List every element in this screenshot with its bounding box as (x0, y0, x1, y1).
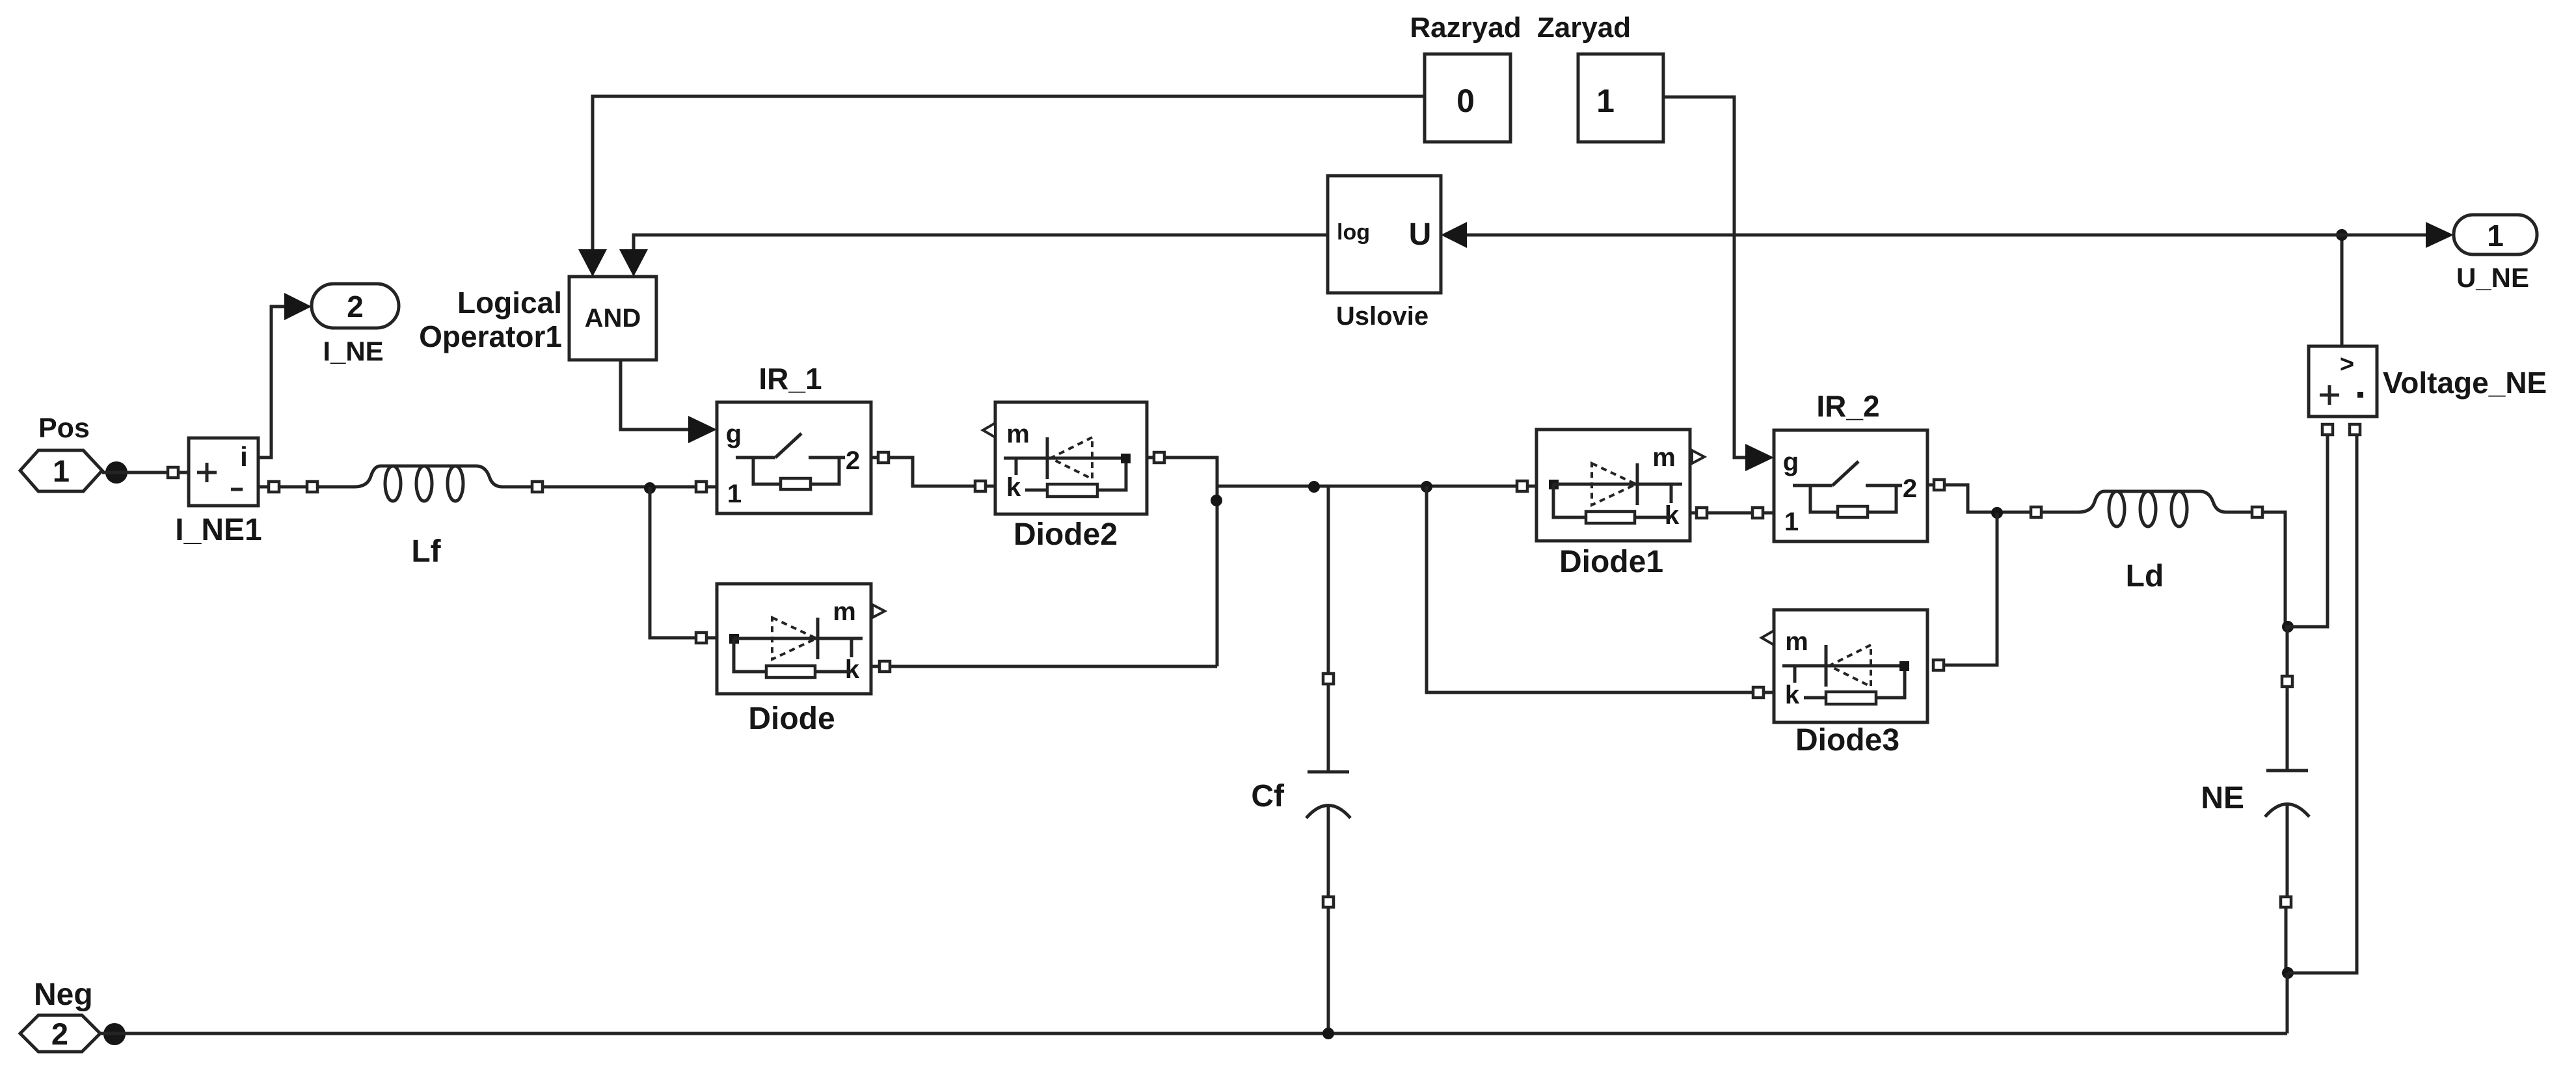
terminal square Diode2 input (975, 481, 986, 491)
diode Diode1 (1536, 430, 1690, 541)
inductor Ld (2041, 491, 2252, 512)
junction dot Cf ground (1322, 1028, 1334, 1039)
terminal square IR_1 input 1 (696, 482, 706, 492)
m arrow Diode2 (983, 423, 995, 437)
diode Diode2 (mirrored) (995, 402, 1147, 514)
svg-text:m: m (1785, 627, 1808, 656)
wire Voltage_NE output up (2341, 235, 2344, 346)
terminal square Diode3 input (1753, 687, 1764, 698)
terminal square Cf top (1323, 674, 1334, 684)
wire bus down to Cf (1327, 486, 1330, 674)
svg-text:I_NE1: I_NE1 (175, 513, 262, 547)
svg-text:m: m (833, 597, 856, 626)
junction dot NE bottom (2282, 967, 2294, 979)
terminal square Diode output (879, 661, 890, 672)
inductor Lf (317, 466, 532, 487)
wire I_NE1 output to Lf (258, 485, 317, 489)
svg-text:Diode1: Diode1 (1559, 545, 1663, 579)
wire Voltage_NE output to U_NE (2342, 234, 2426, 237)
wire Uslovie to AND input 2 (634, 235, 1328, 251)
svg-text:Pos: Pos (38, 413, 90, 444)
terminal square Diode2 output (1154, 452, 1164, 463)
diode Diode (717, 584, 871, 694)
junction dot NE node (2282, 621, 2294, 633)
svg-text:Ld: Ld (2126, 559, 2164, 594)
wire Diode2 output down to bus (1147, 458, 1217, 666)
junction dot IR_2 output node (1991, 507, 2003, 519)
m arrow Diode (872, 605, 885, 618)
terminal square Voltage_NE minus (2350, 424, 2360, 435)
junction dot after Pos (105, 461, 127, 484)
svg-text:IR_2: IR_2 (1816, 389, 1879, 423)
svg-text:Logical: Logical (457, 286, 562, 320)
svg-text:k: k (845, 655, 860, 684)
junction dot Voltage_NE output (2336, 229, 2348, 241)
wire node down to Diode3 output (1944, 513, 1997, 665)
wire Ld to NE node (2262, 512, 2285, 627)
svg-text:Lf: Lf (411, 534, 441, 569)
junction dot after Neg (103, 1023, 126, 1045)
terminal square NE top (2282, 676, 2292, 687)
terminal square Diode input (696, 633, 706, 643)
wire ground bus (100, 1032, 2287, 1035)
svg-text:1: 1 (727, 480, 742, 508)
terminal square NE bottom (2281, 897, 2291, 907)
wire Zaryad to IR_2 g (1663, 97, 1747, 458)
inport Neg (20, 1015, 100, 1052)
terminal square I_NE1 input (168, 467, 178, 478)
svg-text:IR_1: IR_1 (758, 362, 822, 396)
svg-text:2: 2 (347, 290, 364, 323)
svg-text:2: 2 (51, 1017, 68, 1051)
arrowhead into U_NE (2426, 222, 2454, 248)
wire Lf to IR_1 input 1 (543, 485, 717, 489)
terminal square IR_2 output 2 (1934, 480, 1944, 490)
svg-text:k: k (1785, 681, 1800, 709)
wire Pos to I_NE1 (102, 471, 189, 474)
svg-text:Razryad: Razryad (1410, 12, 1521, 44)
svg-text:log: log (1337, 220, 1370, 245)
svg-text:Voltage_NE: Voltage_NE (2383, 366, 2547, 400)
arrowhead AND input 1 (578, 249, 607, 277)
svg-text:AND: AND (585, 304, 641, 333)
terminal square IR_1 output 2 (878, 452, 889, 463)
wire NE node to Voltage_NE plus (2285, 435, 2328, 627)
svg-text:0: 0 (1456, 83, 1475, 119)
svg-text:Diode3: Diode3 (1795, 723, 1899, 758)
switch IR_2 (1774, 430, 1927, 541)
svg-text:i: i (240, 441, 248, 472)
wire Cf bottom to bus (1327, 907, 1330, 1033)
svg-text:Diode: Diode (748, 702, 835, 736)
junction node A (644, 482, 656, 494)
terminal square Diode1 output (1697, 508, 1707, 518)
terminal square Cf bottom (1323, 897, 1334, 907)
logical operator AND (569, 277, 656, 360)
arrowhead IR_1 g (688, 416, 717, 443)
capacitor NE (2286, 687, 2289, 771)
svg-text:Diode2: Diode2 (1013, 517, 1118, 552)
capacitor Cf (1327, 684, 1330, 772)
svg-text:NE: NE (2201, 781, 2244, 815)
svg-text:Operator1: Operator1 (419, 320, 562, 353)
svg-text:g: g (1783, 448, 1799, 476)
terminal square Ld right (2252, 507, 2262, 517)
wire NE bottom junction to Voltage_NE minus (2288, 435, 2357, 973)
logic block Uslovie (1328, 176, 1441, 293)
constant Razryad (1425, 54, 1510, 142)
wire node A down to Diode input (650, 487, 717, 638)
svg-text:m: m (1006, 420, 1030, 448)
terminal square Lf left (307, 482, 317, 492)
outport U_NE (2454, 215, 2537, 254)
svg-text:U_NE: U_NE (2456, 262, 2529, 293)
terminal square Diode1 input (1517, 481, 1527, 491)
svg-text:1: 1 (53, 454, 70, 488)
arrowhead IR_2 g (1745, 444, 1774, 471)
wire branch to Diode3 input (1427, 486, 1774, 692)
svg-text:U: U (1409, 217, 1432, 252)
arrowhead into Uslovie (1441, 222, 1467, 248)
m arrow Diode1 (1692, 450, 1704, 463)
wire I_NE1 i output up to I_NE (258, 307, 284, 458)
svg-text:Cf: Cf (1251, 779, 1285, 813)
svg-text:1: 1 (1596, 83, 1615, 119)
wire main bus to Diode1 (1217, 485, 1536, 488)
terminal square Voltage_NE plus (2322, 424, 2333, 435)
svg-text:g: g (726, 420, 742, 448)
svg-text:2: 2 (1903, 474, 1917, 503)
diode Diode3 (mirrored) (1774, 610, 1927, 722)
wire Razryad to AND input 1 (593, 96, 1425, 251)
wire Diode output return to Diode2 node (871, 665, 1217, 668)
m arrow Diode3 (1762, 631, 1774, 645)
svg-text:1: 1 (2487, 219, 2504, 253)
svg-text:I_NE: I_NE (323, 336, 383, 366)
wire IR_2 output 2 to Ld (1927, 485, 2031, 512)
wire Diode1 output to IR_2 input 1 (1690, 512, 1774, 515)
constant Zaryad (1578, 54, 1663, 142)
svg-text:k: k (1006, 473, 1021, 502)
current measurement I_NE1 (189, 438, 258, 506)
svg-text:>: > (2340, 351, 2354, 378)
arrowhead into I_NE (284, 293, 312, 320)
voltage measurement Voltage_NE (2309, 346, 2377, 417)
wire IR_1 output 2 to Diode2 (871, 458, 995, 486)
svg-text:Neg: Neg (34, 977, 93, 1012)
svg-text:m: m (1652, 443, 1676, 472)
switch IR_1 (717, 402, 871, 513)
arrowhead AND input 2 (619, 249, 648, 277)
junction dot below Diode2 output (1211, 495, 1222, 506)
terminal square Diode3 output (1933, 660, 1944, 670)
wire NE node down to NE (2286, 627, 2289, 676)
wire NE bottom to junction (2285, 907, 2288, 973)
svg-text:Uslovie: Uslovie (1336, 302, 1429, 331)
terminal square Lf right (532, 482, 543, 492)
outport I_NE (312, 284, 399, 328)
inport Pos (20, 450, 102, 491)
terminal square I_NE1 output (269, 482, 279, 492)
wire NE bottom junction to ground bus (2286, 973, 2289, 1033)
junction dot bus Cf (1308, 481, 1320, 493)
svg-text:k: k (1665, 501, 1680, 530)
terminal square Ld left (2031, 507, 2041, 517)
wire Voltage_NE output to Uslovie (1467, 234, 2342, 237)
svg-text:2: 2 (846, 446, 860, 475)
terminal square IR_2 input 1 (1752, 508, 1763, 518)
junction dot bus Diode3 branch (1421, 481, 1432, 493)
wire AND output to IR_1 g (621, 360, 690, 430)
svg-text:1: 1 (1784, 508, 1799, 536)
svg-text:Zaryad: Zaryad (1537, 12, 1631, 44)
